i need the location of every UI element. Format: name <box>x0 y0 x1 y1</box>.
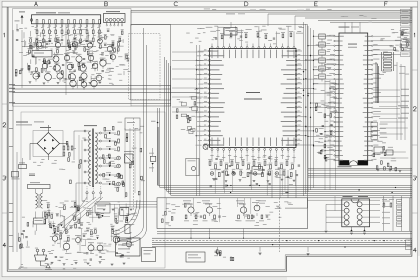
top bus labels <box>204 9 332 11</box>
transformer T601 taps right <box>95 132 101 184</box>
wire top bus 5 <box>305 17 412 19</box>
wire bus corners right end <box>170 86 172 107</box>
bus A4 horizontal <box>13 103 171 105</box>
component cluster: bottom center extra parts <box>214 246 350 260</box>
module box speaker block <box>142 248 156 262</box>
IC601 right pins <box>363 36 381 161</box>
node +B supply arrow top-left <box>21 15 24 18</box>
transformer T601 secondary winding <box>95 133 97 183</box>
resistors near IC702 <box>383 203 385 207</box>
wire vertical x66 <box>65 24 67 95</box>
wire bus corner bundle left-center <box>158 108 412 185</box>
component cluster: bottom edge small parts <box>18 263 91 269</box>
bus A2 horizontal <box>13 88 171 90</box>
AC inlet box <box>12 172 19 178</box>
ground symbol bottom 308 <box>307 254 310 256</box>
IC601 bottom notch <box>349 161 358 165</box>
component cluster: left input column <box>15 28 23 76</box>
component cluster: power supply secondary rectifiers <box>102 118 145 211</box>
component cluster: left of IC201 lower <box>172 52 204 134</box>
wire left rail 2 vertical <box>16 152 18 252</box>
relay/switch box <box>34 218 46 224</box>
bus bottom solid 1 <box>152 237 412 239</box>
IC702 labels <box>343 195 353 198</box>
wire top bus 4 <box>295 15 412 17</box>
grid row labels 1-4 left <box>3 33 6 37</box>
small box power sub <box>95 203 110 213</box>
wire heavy stub <box>157 127 159 185</box>
IC702 top notch <box>351 199 359 203</box>
IC IC201 microcontroller QFP body <box>210 48 297 147</box>
wire horizontal row y46 <box>22 46 96 48</box>
IC601 heat tab black bar left <box>340 160 350 165</box>
filter block FL101 <box>32 50 52 57</box>
IC601 left pins <box>326 35 344 161</box>
bus group y231-234 <box>157 232 412 234</box>
bus group main right extras <box>285 192 412 209</box>
ground symbol bottom mid <box>216 253 219 255</box>
small box left of QFP <box>125 118 140 130</box>
wire vertical x22 <box>21 30 23 88</box>
transformer T601 label <box>84 124 97 127</box>
IC201 bottom pins <box>211 138 295 154</box>
AC plug P601 <box>35 249 47 266</box>
exit labels right of IC702 <box>382 200 402 227</box>
wire dashed vertical x279 <box>279 198 281 252</box>
module box main shield <box>131 25 171 101</box>
grid row tick marks right <box>412 69 418 71</box>
component cluster: rectifier filter parts <box>30 144 73 170</box>
bus bottom dashed <box>152 239 412 241</box>
diode D704 <box>363 229 365 231</box>
wire shield right drop <box>307 25 309 192</box>
wire verticals right column <box>396 62 398 140</box>
dashed vertical isolation line <box>133 118 135 210</box>
border header line <box>2 6 418 8</box>
component cluster: audio stage parts <box>162 198 293 239</box>
wire bundle left of IC201 <box>196 45 198 196</box>
module box bottom connector 2 <box>186 252 205 262</box>
component cluster: right of IC601 bottom <box>373 122 408 172</box>
transformer T601 taps left <box>84 130 91 184</box>
IC101 pins <box>36 20 100 27</box>
wire top bus 6 <box>318 19 412 21</box>
bridge rectifier D601 box <box>33 131 63 157</box>
transistor Q904 <box>188 207 194 213</box>
connector CN101 label <box>106 10 120 13</box>
component cluster: IF lower transistor stage <box>19 24 127 95</box>
grid row tick marks left <box>2 103 7 105</box>
bus A5 horizontal <box>131 105 171 107</box>
small box mid 186-199 <box>186 158 199 175</box>
wire transformer left feeds <box>74 130 85 132</box>
wire L-route to DIP <box>307 192 309 209</box>
bus end label box <box>406 240 412 250</box>
wire curved routing into forest <box>112 200 137 232</box>
wire top bus 3 <box>268 13 412 15</box>
node AGC label <box>15 20 20 23</box>
component cluster: mid components (crystal etc) <box>318 34 340 190</box>
line filter box L601 <box>28 185 51 189</box>
wire IC601 right exits to edge <box>373 89 409 114</box>
wire verticals to bottom-right connector <box>384 196 410 231</box>
IC601 center label <box>348 43 357 46</box>
transistor Q905 <box>206 207 212 213</box>
component cluster: bottom-left power/audio forest <box>43 200 137 265</box>
IC IC601 jungle IC body <box>339 33 368 165</box>
bus group right y168-177 <box>308 168 412 177</box>
wire top bus 2 <box>131 11 412 13</box>
IC201 part number label <box>246 92 260 93</box>
bus A1 horizontal <box>13 85 171 87</box>
capacitor across line <box>29 174 35 175</box>
bus A3 horizontal <box>13 92 200 94</box>
IC IC101 (IF/video SIP) body <box>32 15 101 24</box>
grid row labels 1-4 right <box>413 33 416 37</box>
module box audio output stage <box>157 198 308 229</box>
component cluster: above IC601 labels <box>341 15 410 52</box>
IC702 left wires <box>325 196 345 233</box>
IC702 right wires <box>362 204 380 222</box>
transistor Q907 <box>254 205 260 211</box>
IC702 pin circles <box>344 202 362 225</box>
wire verticals below ladder <box>271 170 273 198</box>
comb filter block <box>224 28 237 36</box>
wire AC to bridge <box>22 158 24 165</box>
diode D703 <box>350 229 352 231</box>
IC IC702 DIP-8 body <box>342 199 370 227</box>
component cluster: tuner/IF discrete parts columns <box>35 27 102 46</box>
connector CN101 body <box>104 14 126 23</box>
wire drop from top bus to shield <box>130 10 132 26</box>
wire connections QFP right pins to bundle <box>302 55 314 145</box>
module box dashed video section <box>129 34 161 100</box>
wire exit labels left edge mid <box>9 110 14 147</box>
wire bundle QFP-right verticals <box>304 22 314 196</box>
bus bottom solid 4 <box>152 246 412 248</box>
IC601 heat tab black bar right <box>358 160 368 165</box>
transformer T601 core <box>91 129 93 188</box>
component cluster: IF mid field <box>22 28 107 63</box>
bus group y201-207 left <box>96 202 157 208</box>
bridge rectifier D601 diamond <box>37 133 59 155</box>
IC101 label <box>36 11 56 14</box>
module box CN901 block <box>116 238 141 256</box>
IC601 bottom caption <box>338 165 352 168</box>
wire vertical pair x143-146 upper <box>143 28 145 120</box>
wire exit labels mid-right <box>379 105 408 118</box>
transistor Q906 <box>240 207 246 213</box>
optocoupler PC601 <box>125 154 134 163</box>
transistor QFP corner <box>203 144 208 149</box>
wire diagonals in forest <box>62 197 100 228</box>
resistor network ladder <box>382 52 394 71</box>
component chain x150-156 <box>149 148 156 172</box>
IC201 left pins <box>195 50 225 147</box>
frame ground symbol <box>46 264 50 268</box>
wire exit labels left edge bottom <box>9 203 14 247</box>
transistor circles row 1 <box>37 42 42 47</box>
IC601 label above <box>339 26 350 29</box>
IC201 right pins <box>281 50 302 147</box>
bus bottom solid 3 <box>152 244 412 246</box>
bus bottom solid 2 <box>152 241 412 243</box>
top mid labels <box>226 13 235 16</box>
node SC junction <box>157 122 159 124</box>
power section caption <box>16 122 28 123</box>
connector CN101 pins <box>105 18 123 26</box>
IC201 top pins <box>211 44 295 59</box>
component cluster: IC601 left column wiring <box>314 45 340 162</box>
line filter choke windings <box>36 193 43 208</box>
bridge label <box>40 126 51 129</box>
transformer T601 primary winding <box>89 131 91 186</box>
wire exit labels top-right <box>401 9 411 56</box>
fuse F601 box <box>19 165 27 169</box>
connector header boxes right mid <box>371 123 388 140</box>
component cluster: left of transformer <box>66 135 85 205</box>
wire top bus 1 <box>131 9 412 11</box>
grid column labels A-F <box>35 2 38 6</box>
wire bundle right of IC601 <box>376 62 405 140</box>
transformer bottom taps dashed <box>86 186 102 200</box>
component cluster: left edge column <box>19 217 39 249</box>
module box tuner/IF section <box>13 9 132 107</box>
component cluster: IC201 top wiring <box>186 14 304 45</box>
module box power supply <box>21 112 165 268</box>
ground symbol bottom mid 2 <box>258 253 261 255</box>
wire left rail +B vertical <box>12 30 14 252</box>
component cluster: audio box left parts <box>162 204 187 223</box>
component cluster: IC201 bottom parts ladder <box>208 154 300 198</box>
small box below IC201 <box>252 167 263 175</box>
wire shield top rail <box>131 24 308 26</box>
wire connections bundle to IC601 left pins <box>303 36 334 152</box>
component cluster: right of IC601 top wires <box>373 29 411 75</box>
component cluster: IF right parts <box>99 29 130 84</box>
wire top bus 7 <box>330 21 412 23</box>
